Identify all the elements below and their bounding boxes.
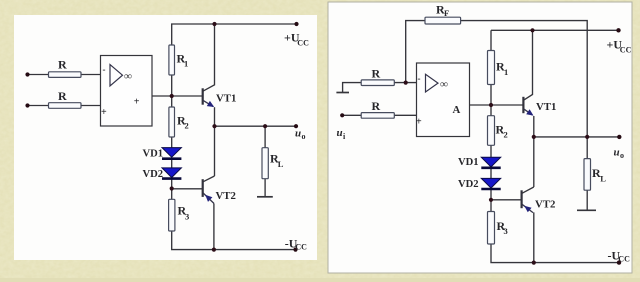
resistor R2 (right): [488, 116, 508, 146]
resistor R3: [169, 199, 190, 231]
wire VT2 base (right): [491, 199, 522, 201]
terminal -Ucc (right): [617, 260, 621, 264]
right panel: [328, 2, 632, 273]
wire VD1 to VD2: [171, 160, 173, 168]
wire rail uo to VT2 collector: [214, 126, 216, 176]
svg-text:R: R: [372, 99, 381, 113]
wire VD1 to VD2 (right): [490, 169, 492, 179]
svg-text:∞: ∞: [440, 79, 448, 91]
svg-text:VD2: VD2: [458, 179, 479, 190]
resistor R (row1 right panel): [361, 67, 394, 86]
terminal +Ucc (right): [616, 28, 620, 32]
terminal dot input2: [25, 103, 29, 107]
node RL/feedback junction (right): [585, 135, 589, 139]
label uo (right): [614, 147, 625, 161]
wire RF to right riser: [461, 21, 588, 137]
ground (RL right): [577, 209, 596, 211]
svg-text:CC: CC: [295, 242, 307, 251]
svg-text:2: 2: [504, 130, 508, 140]
svg-text:-: -: [418, 74, 421, 84]
resistor RL: [262, 148, 284, 179]
terminal +Ucc: [294, 22, 298, 26]
svg-text:-: -: [103, 65, 106, 75]
wire RL top lead: [264, 126, 266, 148]
node VD2/R3/VT2 base junction (right): [489, 198, 493, 202]
svg-text:u: u: [614, 147, 620, 159]
terminal dot input1: [25, 72, 29, 76]
diode VD2: [143, 168, 182, 180]
wire node to R2 (right): [490, 105, 492, 116]
svg-text:VT1: VT1: [536, 101, 556, 113]
op-amp A triangle: [426, 74, 439, 92]
wire top rail: [172, 24, 297, 45]
wire VT2 collector diagonal (right): [522, 187, 534, 193]
transistor VT2: [203, 179, 236, 203]
svg-text:1: 1: [184, 59, 188, 69]
svg-text:+: +: [416, 117, 422, 128]
wire rail uo to VT2 collector (right): [533, 137, 535, 187]
svg-text:u: u: [337, 127, 343, 139]
node VT2 emitter on bottom rail: [212, 248, 216, 252]
node VT2 emitter on bottom rail (right): [532, 261, 536, 265]
wire R1 bottom to node: [490, 85, 492, 106]
svg-text:VD1: VD1: [458, 157, 479, 168]
wire VT2 emitter drop (right): [533, 212, 535, 262]
resistor R2: [169, 107, 189, 137]
svg-text:CC: CC: [297, 38, 309, 47]
wire R2 to VD1: [171, 137, 173, 148]
resistor R1: [169, 45, 188, 75]
node VT1 collector on +Ucc rail (right): [530, 28, 534, 32]
wire op-amp A output: [470, 104, 492, 106]
wire uo row (right): [534, 136, 620, 138]
svg-text:R: R: [372, 67, 381, 81]
svg-text:u: u: [295, 128, 301, 140]
svg-text:+: +: [101, 107, 107, 118]
op-amp A box: [417, 63, 470, 137]
svg-text:CC: CC: [618, 255, 630, 264]
wire R row1 right lead: [394, 82, 416, 84]
svg-text:CC: CC: [620, 45, 632, 54]
node op A output junction: [489, 103, 493, 107]
wire VT1 base (right): [491, 104, 523, 106]
svg-text:3: 3: [504, 226, 508, 236]
svg-text:VD2: VD2: [143, 169, 164, 180]
resistor R1 (right): [488, 51, 509, 85]
svg-text:F: F: [444, 8, 449, 18]
wire op-amp output: [152, 95, 172, 97]
transistor VT2 (right): [522, 190, 556, 212]
wire VT1 collector riser (right): [524, 30, 533, 100]
ground (RL): [257, 196, 273, 198]
label -Ucc: [285, 236, 307, 251]
wire VT2 base: [172, 188, 203, 190]
wire ground input: [343, 83, 362, 93]
svg-text:R: R: [58, 89, 67, 103]
transistor VT1 (right): [523, 97, 556, 116]
wire R3 to bottom rail (right): [491, 244, 619, 263]
diode VD2 (right): [458, 178, 501, 190]
svg-text:L: L: [600, 174, 606, 184]
resistor R (input 2): [49, 89, 82, 108]
wire R1 top lead: [490, 30, 492, 50]
resistor R (row2 right panel): [361, 99, 394, 118]
label +Ucc (right): [607, 38, 632, 55]
svg-text:VD1: VD1: [143, 149, 164, 160]
wire input2 lead right: [81, 105, 101, 107]
svg-text:+: +: [134, 96, 140, 107]
resistor R3 (right): [488, 212, 508, 245]
label +Ucc: [284, 31, 309, 48]
wire node to R3 (right): [490, 200, 492, 212]
wire VT1 emitter drop (right): [533, 116, 535, 137]
wire RL bottom to ground: [264, 179, 266, 196]
wire feedback left riser: [406, 21, 425, 83]
wire VD2 to node (right): [490, 190, 492, 200]
resistor RL (right): [584, 159, 606, 191]
wire RL top lead (right): [586, 137, 588, 159]
diode VD1 (right): [458, 157, 501, 168]
wire VT1 emitter drop: [214, 107, 216, 126]
wire R3 to bottom rail: [172, 231, 296, 250]
wire node to R3: [171, 189, 173, 200]
label -Ucc (right): [608, 249, 631, 264]
terminal -Ucc: [293, 248, 297, 252]
wire R row2 right lead: [394, 114, 416, 116]
label ui: [337, 127, 347, 141]
wire R2 to VD1 (right): [490, 145, 492, 157]
label uo: [295, 128, 306, 142]
svg-text:∞: ∞: [124, 71, 132, 83]
wire R1 bottom to node: [171, 75, 173, 96]
wire node to R2: [171, 96, 173, 107]
node uo/VT1 emitter junction: [212, 124, 216, 128]
terminal uo: [294, 124, 298, 128]
wire input2 lead left: [28, 105, 49, 107]
wire RL bottom to ground (right): [586, 190, 588, 210]
wire input1 lead left: [28, 74, 49, 76]
op-amp U1 box: [101, 56, 153, 127]
svg-text:o: o: [620, 151, 624, 160]
svg-text:VT1: VT1: [216, 93, 236, 105]
node uo/VT1 emitter junction (right): [532, 135, 536, 139]
node feedback/R junction: [404, 81, 408, 85]
wire VT2 collector diagonal: [203, 176, 215, 182]
node op output junction: [170, 94, 174, 98]
node VD2/R3/VT2 base junction: [170, 186, 174, 190]
svg-text:3: 3: [185, 212, 189, 222]
svg-text:VT2: VT2: [216, 190, 236, 202]
node RL top junction: [263, 124, 267, 128]
left panel: [14, 15, 317, 260]
wire VT2 emitter drop: [213, 203, 215, 249]
wire uo row: [215, 125, 297, 127]
wire input ui lead: [342, 114, 361, 116]
transistor VT1: [203, 88, 237, 107]
wire VT1 base: [172, 95, 203, 97]
wire VT1 collector riser: [203, 24, 215, 91]
svg-text:VT2: VT2: [535, 199, 555, 211]
svg-text:L: L: [278, 159, 284, 169]
terminal ui: [340, 113, 344, 117]
svg-text:R: R: [58, 58, 67, 72]
ground (input): [336, 92, 349, 94]
svg-text:2: 2: [185, 121, 189, 131]
svg-text:o: o: [302, 132, 306, 141]
wire input1 lead right: [81, 74, 101, 76]
svg-text:A: A: [453, 104, 461, 116]
resistor RF: [425, 3, 461, 25]
svg-text:1: 1: [504, 67, 508, 77]
wire VD2 to node: [171, 179, 173, 188]
wire +Ucc rail: [491, 29, 619, 31]
node VT1 collector on top rail: [212, 22, 216, 26]
resistor R (input 1): [49, 58, 82, 78]
diode VD1: [143, 148, 182, 160]
op-amp U1 triangle: [110, 65, 123, 87]
terminal uo (right): [617, 135, 621, 139]
